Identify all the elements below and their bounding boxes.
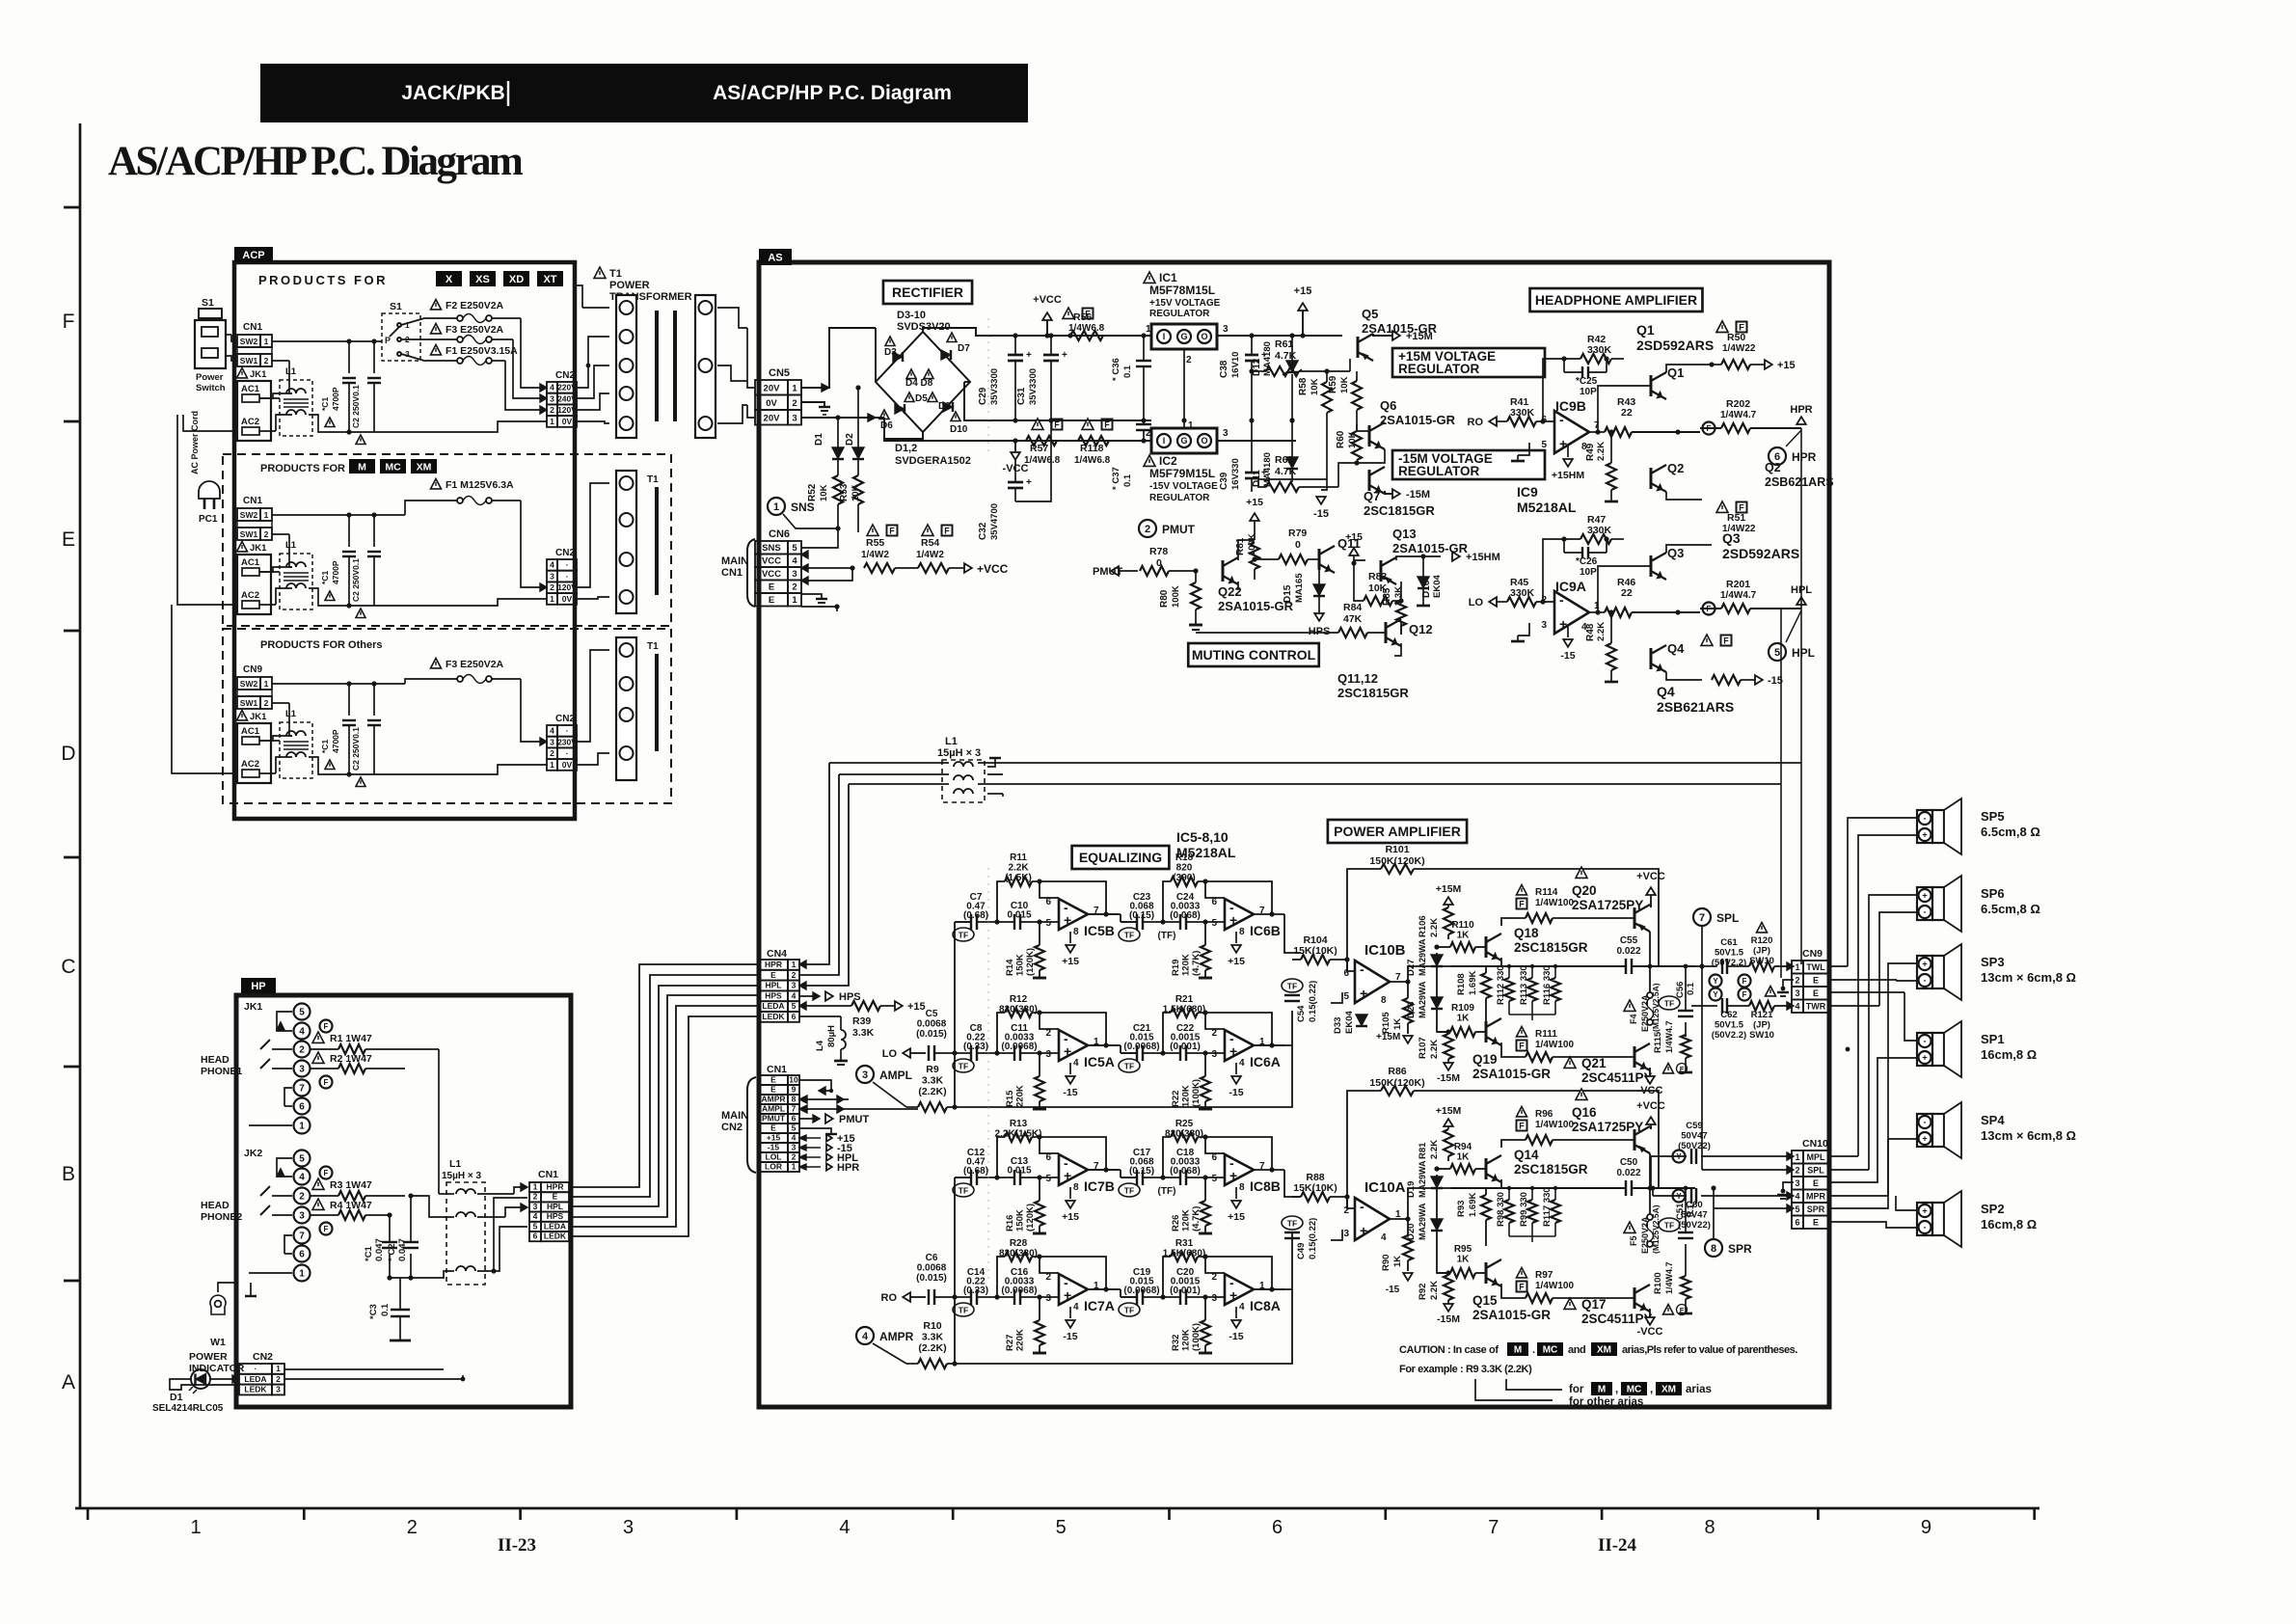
svg-text:8: 8	[1073, 927, 1079, 937]
svg-text:220K: 220K	[1015, 1329, 1026, 1351]
svg-text:F: F	[324, 1078, 329, 1087]
svg-text:MAIN: MAIN	[721, 555, 748, 567]
svg-text:R118: R118	[1080, 443, 1104, 454]
svg-text:1/4W6.8: 1/4W6.8	[1024, 455, 1061, 466]
wire input row IC6A	[1121, 1052, 1137, 1054]
svg-text:C5: C5	[926, 1009, 938, 1019]
svg-text:4: 4	[533, 1211, 538, 1221]
HP board outline	[236, 995, 571, 1407]
svg-text:REGULATOR: REGULATOR	[1149, 309, 1210, 319]
svg-text:120K: 120K	[1181, 1329, 1192, 1351]
svg-text:1.69K: 1.69K	[1468, 971, 1478, 995]
svg-text:LEDK: LEDK	[244, 1385, 267, 1394]
svg-text:E: E	[770, 1123, 776, 1132]
svg-text:D: D	[61, 743, 75, 765]
svg-text:CN1: CN1	[721, 567, 743, 579]
svg-text:POWER: POWER	[189, 1351, 228, 1363]
svg-text:IC6B: IC6B	[1250, 923, 1281, 938]
svg-text:R48: R48	[1585, 623, 1596, 641]
svg-text:O: O	[1201, 436, 1207, 446]
svg-text:+: +	[1062, 350, 1067, 361]
junction dot row1	[586, 364, 591, 368]
svg-text:R83: R83	[1368, 571, 1387, 582]
svg-text:-15M: -15M	[1406, 489, 1430, 501]
power arrow IC5B	[1069, 932, 1071, 943]
svg-text:C31: C31	[1016, 387, 1027, 405]
svg-text:1/4W4.7: 1/4W4.7	[1664, 1020, 1674, 1053]
svg-text:1/4W2: 1/4W2	[861, 550, 889, 560]
capacitor C51 0.1	[1659, 1218, 1680, 1232]
wires CN6	[801, 551, 808, 558]
speaker SP3	[1917, 956, 1932, 988]
wire IC10B output	[1390, 966, 1451, 982]
svg-text:-15: -15	[1386, 1285, 1400, 1295]
svg-text:1/4W100: 1/4W100	[1535, 1281, 1574, 1291]
svg-text:RO: RO	[1468, 417, 1484, 428]
left ruler	[79, 123, 82, 1508]
svg-text:C6: C6	[926, 1253, 938, 1263]
svg-text:Q13: Q13	[1392, 527, 1417, 541]
svg-text:Q21: Q21	[1581, 1056, 1607, 1070]
svg-text:8: 8	[1239, 927, 1245, 937]
IC2 label	[1144, 455, 1155, 466]
svg-text:+: +	[1064, 1043, 1071, 1059]
svg-text:SPL: SPL	[1807, 1165, 1824, 1175]
AS board outline	[759, 262, 1829, 1407]
svg-text:D1,2: D1,2	[895, 443, 917, 454]
svg-text:3: 3	[1045, 1293, 1051, 1304]
svg-text:+: +	[1026, 477, 1032, 488]
stage couple wires	[1088, 913, 1121, 915]
svg-text:220V: 220V	[557, 383, 577, 392]
svg-text:CN9: CN9	[243, 664, 262, 675]
svg-text:3: 3	[1541, 620, 1547, 631]
svg-text:Q18: Q18	[1514, 926, 1539, 940]
svg-text:C49: C49	[1296, 1243, 1307, 1259]
svg-text:(50V22): (50V22)	[1678, 1141, 1711, 1151]
svg-text:7: 7	[1488, 1517, 1499, 1538]
wire HPR bus	[978, 762, 1801, 764]
svg-text:C61: C61	[1720, 937, 1738, 948]
svg-text:IC8A: IC8A	[1250, 1298, 1281, 1313]
svg-text:AS/ACP/HP P.C. Diagram: AS/ACP/HP P.C. Diagram	[108, 139, 524, 184]
svg-text:2SC1815GR: 2SC1815GR	[1514, 1162, 1588, 1177]
svg-text:-: -	[1924, 907, 1927, 917]
svg-text:R9: R9	[926, 1064, 939, 1075]
svg-text:M: M	[358, 461, 366, 473]
rectifier label	[883, 281, 972, 304]
svg-text:ACP: ACP	[242, 250, 264, 261]
svg-text:5: 5	[1045, 1174, 1051, 1184]
wire CN5 pin1	[801, 328, 876, 388]
svg-text:22: 22	[1621, 407, 1633, 419]
svg-text:*C1: *C1	[364, 1245, 374, 1261]
TF mark IC5B	[953, 928, 974, 941]
svg-text:L1: L1	[449, 1158, 461, 1170]
wire CN5 pin3	[801, 417, 876, 419]
stage2 output wires	[1284, 914, 1301, 953]
op-amp IC5A	[1059, 1030, 1088, 1061]
resistor R57	[1032, 419, 1043, 429]
svg-text:10: 10	[789, 1074, 798, 1084]
svg-text:,: ,	[1650, 1384, 1653, 1395]
svg-text:R85: R85	[1382, 587, 1392, 606]
svg-text:20V: 20V	[764, 383, 781, 393]
svg-text:3: 3	[276, 1385, 281, 1394]
svg-text:TF: TF	[959, 1186, 968, 1196]
svg-text:1/4W100: 1/4W100	[1535, 1120, 1574, 1130]
svg-text:JACK/PKB: JACK/PKB	[401, 82, 504, 104]
MUTING CONTROL label	[1188, 643, 1319, 666]
svg-text:0V: 0V	[562, 417, 573, 426]
svg-text:LO: LO	[1469, 597, 1484, 609]
svg-text:22: 22	[1621, 587, 1633, 599]
svg-text:-: -	[1559, 412, 1564, 427]
svg-text:R27: R27	[1005, 1335, 1015, 1351]
svg-text:CN2: CN2	[555, 370, 575, 381]
svg-text:F1 E250V3.15A: F1 E250V3.15A	[446, 345, 518, 357]
+15HM arrow	[1452, 552, 1460, 561]
svg-text:(100K): (100K)	[1191, 1323, 1202, 1351]
svg-text:+15HM: +15HM	[1552, 470, 1584, 481]
svg-text:TF: TF	[959, 931, 968, 940]
svg-text:IC5-8,10: IC5-8,10	[1176, 829, 1229, 845]
svg-text:C39: C39	[1219, 472, 1229, 490]
wire PMUT net vertical	[1138, 571, 1196, 690]
svg-text:4: 4	[1239, 1302, 1245, 1313]
svg-text:-15: -15	[1063, 1331, 1077, 1342]
svg-text:LEDK: LEDK	[544, 1232, 567, 1241]
wire bridge left	[875, 327, 877, 329]
svg-text:MPR: MPR	[1806, 1191, 1826, 1201]
svg-text:LEDA: LEDA	[762, 1001, 784, 1011]
svg-text:Q2: Q2	[1667, 461, 1684, 475]
svg-text:5: 5	[299, 1154, 305, 1165]
svg-text:3: 3	[1223, 428, 1229, 439]
svg-text:+15M: +15M	[1406, 331, 1433, 342]
svg-text:C2 250V0.1: C2 250V0.1	[351, 727, 361, 771]
svg-text:3: 3	[299, 1211, 305, 1222]
svg-text:1K: 1K	[1457, 931, 1471, 941]
svg-text:330K: 330K	[1587, 344, 1612, 356]
op-amp IC6B	[1225, 899, 1254, 930]
svg-text:IC7B: IC7B	[1084, 1178, 1115, 1194]
svg-text:3: 3	[1343, 1229, 1349, 1239]
svg-text:M: M	[1514, 1345, 1522, 1356]
svg-text:(JP): (JP)	[1753, 946, 1770, 957]
svg-text:5: 5	[792, 1001, 797, 1011]
svg-text:3: 3	[533, 1202, 538, 1211]
svg-text:6: 6	[1343, 968, 1349, 979]
resistor R51	[1716, 501, 1728, 512]
svg-text:15K(10K): 15K(10K)	[1293, 1182, 1337, 1194]
svg-text:Switch: Switch	[196, 383, 226, 393]
circled 7 SPL	[1693, 908, 1711, 926]
svg-text:HEAD: HEAD	[201, 1200, 230, 1211]
svg-text:AS: AS	[768, 252, 782, 263]
svg-text:2: 2	[792, 398, 797, 409]
wire output IC5A	[1088, 1044, 1119, 1046]
svg-text:9: 9	[1921, 1517, 1931, 1538]
svg-text:IC10B: IC10B	[1364, 942, 1406, 959]
svg-text:F: F	[1104, 420, 1110, 430]
svg-text:+15: +15	[1062, 956, 1079, 967]
wires switch to CN1	[226, 334, 231, 336]
svg-text:REGULATOR: REGULATOR	[1149, 493, 1210, 503]
svg-text:5: 5	[1211, 1174, 1217, 1184]
op-amp IC7A	[1059, 1274, 1088, 1305]
svg-text:E: E	[769, 595, 774, 606]
svg-text:for other arias: for other arias	[1569, 1396, 1643, 1408]
svg-text:5: 5	[1343, 991, 1349, 1002]
svg-text:3: 3	[792, 413, 797, 423]
svg-text:+15: +15	[1228, 1211, 1245, 1223]
capacitor C62 50V1.5	[1710, 988, 1722, 1001]
svg-text:TF: TF	[1124, 1306, 1134, 1315]
svg-text:AS/ACP/HP P.C. Diagram: AS/ACP/HP P.C. Diagram	[713, 82, 952, 104]
svg-text:3: 3	[792, 1142, 797, 1151]
svg-text:+15: +15	[1246, 497, 1263, 508]
dashed box products M MC XM	[223, 454, 671, 626]
svg-text:1: 1	[550, 760, 554, 770]
svg-text:JK1: JK1	[250, 543, 267, 554]
input arrow LO	[1489, 597, 1497, 607]
svg-text:4: 4	[299, 1173, 305, 1183]
svg-text:2.2K: 2.2K	[1596, 442, 1607, 461]
warn R50	[1716, 321, 1728, 332]
svg-text:R111: R111	[1535, 1029, 1557, 1040]
svg-text:IC6A: IC6A	[1250, 1054, 1281, 1069]
svg-text:R60: R60	[1336, 430, 1346, 448]
svg-text:-15: -15	[1229, 1087, 1243, 1098]
svg-text:XS: XS	[475, 274, 490, 285]
svg-text:R95: R95	[1454, 1244, 1472, 1255]
svg-text:5: 5	[1211, 918, 1217, 929]
wire bridge bottom to -rail	[884, 432, 1151, 441]
riser wire R channel	[954, 1177, 956, 1364]
svg-text:INDICATOR: INDICATOR	[189, 1363, 245, 1374]
TF mark IC8A	[1119, 1303, 1140, 1316]
svg-text:SP1: SP1	[1981, 1032, 2005, 1046]
svg-text:-15: -15	[1229, 1331, 1243, 1342]
HEADPHONE AMPLIFIER label	[1530, 288, 1703, 311]
svg-text:F5: F5	[1629, 1235, 1638, 1246]
svg-text:*C1: *C1	[320, 740, 330, 753]
svg-text:MC: MC	[1627, 1385, 1642, 1395]
svg-text:4: 4	[299, 1027, 305, 1038]
svg-text:5: 5	[1056, 1517, 1067, 1538]
svg-text:1: 1	[299, 1122, 305, 1132]
svg-text:PMUT: PMUT	[839, 1114, 869, 1125]
svg-text:+: +	[1922, 1134, 1927, 1144]
svg-text:4: 4	[1381, 1232, 1387, 1243]
svg-text:SP4: SP4	[1981, 1113, 2005, 1127]
svg-text:2: 2	[1795, 1165, 1799, 1175]
TF mark IC7A	[953, 1303, 974, 1316]
plug PC1	[199, 481, 220, 499]
svg-text:2: 2	[550, 748, 554, 758]
svg-text:IC7A: IC7A	[1084, 1298, 1115, 1313]
svg-text:(0.015): (0.015)	[916, 1029, 947, 1040]
svg-text:PHONE2: PHONE2	[201, 1211, 242, 1223]
wire IC2 out	[1217, 440, 1296, 442]
svg-text:0.0068: 0.0068	[917, 1263, 947, 1274]
svg-text:SW10: SW10	[1749, 1030, 1774, 1041]
svg-text:3: 3	[550, 737, 554, 746]
svg-text:2.2K: 2.2K	[1429, 918, 1440, 937]
svg-text:120V: 120V	[557, 582, 577, 592]
svg-text:-: -	[1924, 1118, 1927, 1127]
svg-text:-: -	[1924, 814, 1927, 824]
HP tag	[241, 978, 276, 993]
svg-text:1/4W22: 1/4W22	[1722, 343, 1756, 354]
svg-text:C: C	[61, 956, 75, 978]
svg-text:240V: 240V	[557, 393, 577, 403]
svg-text:D6: D6	[880, 420, 893, 431]
svg-text:7: 7	[299, 1232, 305, 1242]
svg-text:Q20: Q20	[1572, 883, 1597, 898]
svg-text:10K: 10K	[1339, 376, 1350, 393]
svg-text:R112 330: R112 330	[1496, 965, 1506, 1005]
wires CN2 row1 to T1	[577, 337, 609, 388]
svg-text:2SB621ARS: 2SB621ARS	[1657, 699, 1734, 715]
svg-text:1: 1	[1594, 601, 1600, 611]
svg-text:3: 3	[1211, 1293, 1217, 1304]
wire Q7 out	[1384, 441, 1386, 470]
svg-text:HPR: HPR	[837, 1162, 859, 1174]
svg-text:1.69K: 1.69K	[1468, 1193, 1478, 1217]
svg-text:*C3: *C3	[368, 1304, 379, 1319]
svg-text:for: for	[1569, 1384, 1584, 1395]
input arrow RO	[1489, 417, 1497, 426]
-VCC arrow	[1014, 441, 1016, 450]
svg-text:4700P: 4700P	[331, 387, 340, 411]
svg-text:Q6: Q6	[1380, 398, 1396, 413]
svg-text:1: 1	[550, 594, 554, 604]
svg-text:C50: C50	[1620, 1157, 1638, 1168]
svg-text:2SA1725PY: 2SA1725PY	[1572, 1120, 1643, 1134]
svg-text:6: 6	[299, 1250, 305, 1260]
svg-text:(50V22): (50V22)	[1678, 1220, 1711, 1231]
svg-text:Q3: Q3	[1722, 530, 1741, 546]
svg-text:F: F	[63, 311, 75, 333]
svg-text:-: -	[1360, 961, 1364, 977]
svg-text:2: 2	[533, 1192, 538, 1202]
svg-text:+15: +15	[1345, 531, 1363, 543]
speaker SP6	[1917, 887, 1932, 920]
svg-text:S1: S1	[202, 297, 214, 309]
svg-text:R52: R52	[807, 483, 818, 501]
speaker wiring verticals	[1848, 818, 1917, 966]
svg-text:R39: R39	[852, 1015, 871, 1027]
TF mark IC6A	[1119, 1059, 1140, 1072]
svg-text:R80: R80	[1159, 589, 1170, 608]
svg-text:50V47: 50V47	[1681, 1131, 1707, 1142]
svg-text:+15M: +15M	[1376, 1032, 1400, 1042]
riser wire L channel	[954, 922, 956, 1107]
svg-text:CN1: CN1	[767, 1064, 787, 1075]
svg-text:+: +	[1922, 960, 1927, 969]
svg-text:1: 1	[264, 510, 269, 520]
svg-text:50V1.5: 50V1.5	[1715, 948, 1744, 959]
svg-text:AMPR: AMPR	[761, 1094, 785, 1103]
svg-text:-: -	[1360, 1199, 1364, 1214]
speaker SP4	[1917, 1114, 1932, 1147]
header bar	[260, 64, 1028, 122]
svg-text:* C36: * C36	[1111, 358, 1121, 381]
svg-text:6: 6	[299, 1102, 305, 1113]
svg-text:8: 8	[1239, 1182, 1245, 1193]
+VCC out arrow	[895, 567, 918, 569]
svg-text:R2 1W47: R2 1W47	[330, 1053, 372, 1065]
-15M VOLTAGE REGULATOR label	[1392, 450, 1545, 479]
svg-text:1/4W100: 1/4W100	[1535, 1040, 1574, 1050]
svg-text:CN10: CN10	[1802, 1138, 1828, 1150]
wires row2 to T1	[577, 483, 609, 587]
svg-text:R201: R201	[1726, 579, 1750, 590]
svg-text:2: 2	[299, 1045, 305, 1056]
svg-text:IC8B: IC8B	[1250, 1178, 1281, 1194]
resistor R202 1/4W4.7	[1703, 422, 1715, 435]
svg-text:0.1: 0.1	[1686, 982, 1696, 995]
svg-text:E: E	[1813, 975, 1819, 985]
svg-text:MC: MC	[1543, 1345, 1558, 1356]
wire input row IC8A	[1121, 1296, 1137, 1298]
svg-text:Q1: Q1	[1667, 365, 1684, 380]
svg-text:35V3300: 35V3300	[1028, 368, 1039, 405]
capacitor C26 10P	[1564, 552, 1582, 554]
power arrow IC5A	[1069, 1063, 1071, 1074]
svg-text:TF: TF	[1664, 1221, 1674, 1231]
svg-text:(120K): (120K)	[1025, 1204, 1036, 1232]
svg-text:R120: R120	[1751, 935, 1773, 946]
svg-text:II-24: II-24	[1598, 1535, 1637, 1556]
svg-text:-: -	[1924, 976, 1927, 986]
wires row2 to CN2	[492, 500, 521, 501]
svg-text:D15: D15	[1283, 584, 1293, 603]
svg-text:AC1: AC1	[241, 726, 260, 737]
svg-text:330K: 330K	[1510, 407, 1535, 419]
svg-text:1: 1	[190, 1517, 201, 1538]
svg-text:0V: 0V	[562, 594, 573, 604]
wire HPR down to connector	[1800, 428, 1802, 964]
svg-text:35V4700: 35V4700	[989, 503, 1000, 540]
wires LED CN2	[170, 1379, 239, 1390]
power arrow IC9A	[1567, 626, 1569, 637]
svg-text:7: 7	[792, 1103, 797, 1113]
svg-text:L1: L1	[285, 540, 297, 551]
svg-text:20V: 20V	[764, 413, 781, 423]
wire E bus	[987, 773, 1003, 775]
wire input row IC7A	[955, 1296, 971, 1298]
svg-text:3: 3	[405, 349, 410, 359]
svg-text:+15: +15	[767, 1132, 781, 1142]
wire input row IC6B	[1121, 921, 1137, 923]
wire output IC7B	[1088, 1169, 1119, 1171]
transistor Q21	[1564, 1057, 1576, 1068]
circled 5 HPL	[1769, 643, 1786, 661]
svg-text:O: O	[1201, 332, 1207, 341]
svg-text:SW2: SW2	[240, 679, 258, 689]
svg-text:CN2: CN2	[555, 548, 575, 558]
svg-text:R12: R12	[1010, 994, 1028, 1005]
svg-text:SPR: SPR	[1728, 1242, 1752, 1256]
svg-text:R109: R109	[1451, 1003, 1474, 1014]
fuse F5	[1624, 1222, 1635, 1232]
svg-text:L1: L1	[285, 366, 297, 377]
svg-text:10K: 10K	[819, 484, 829, 501]
transistor Q17	[1564, 1298, 1576, 1309]
